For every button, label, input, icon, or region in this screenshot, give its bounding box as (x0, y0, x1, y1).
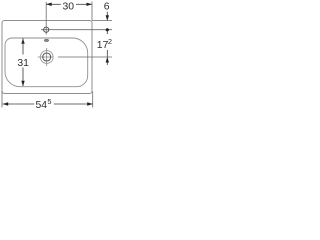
svg-text:30: 30 (63, 2, 75, 13)
tap hole horizontal centre line to right edge (41, 29, 112, 31)
dimension 6 line and down arrow (106, 12, 108, 20)
svg-text:54: 54 (36, 100, 48, 111)
dimension 17.2 line and up arrow (106, 50, 108, 65)
drain centre line to right edge (58, 56, 112, 58)
svg-text:17: 17 (97, 40, 109, 51)
washbasin outer rim outline (2, 21, 92, 94)
tap hole vertical centre/extension line (45, 2, 47, 35)
rear edge extension line (right) (92, 20, 112, 22)
dimension 30 right extension line (91, 2, 93, 21)
dimension 30 left arrow (46, 3, 52, 7)
svg-text:2: 2 (108, 37, 112, 46)
dimension 54.5 left extension line (1, 91, 3, 108)
dimension 54.5 right arrow (87, 102, 93, 105)
svg-text:5: 5 (47, 97, 51, 106)
dimension dot marker on tap centre line (106, 28, 109, 31)
tap hole circle (44, 27, 49, 32)
dimension 31 up arrow (21, 38, 24, 44)
overflow hole ellipse (44, 39, 49, 42)
drain inner circle (43, 53, 51, 61)
dimension 30 right arrow (87, 3, 93, 6)
svg-text:31: 31 (17, 58, 29, 69)
dimension 30 line (46, 3, 61, 5)
drain outer circle (40, 51, 53, 64)
drain crosshair (46, 48, 48, 66)
washbasin inner bowl outline (5, 38, 88, 87)
dimension 54.5 right extension line (92, 92, 94, 108)
svg-text:6: 6 (104, 2, 110, 13)
dimension 31 down arrow (22, 68, 24, 87)
dimension 54.5 left arrow (3, 102, 9, 105)
dimension 54.5 line (3, 103, 35, 105)
